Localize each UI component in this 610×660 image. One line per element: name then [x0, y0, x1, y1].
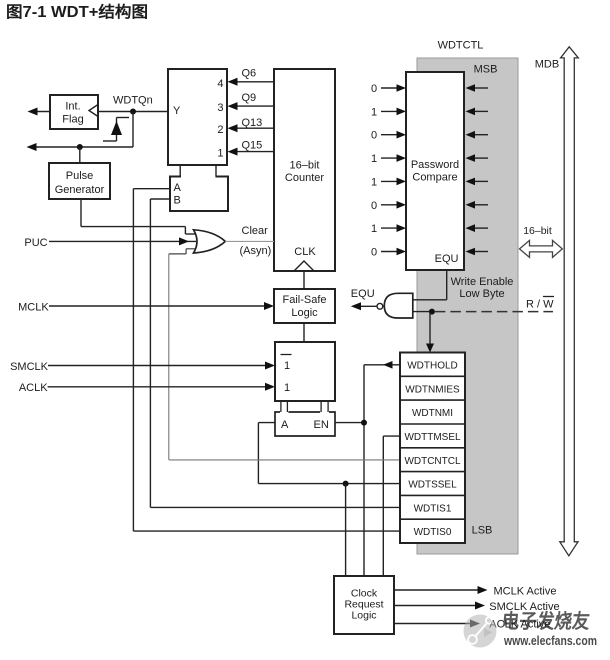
svg-text:0: 0: [371, 200, 377, 212]
wire junction to pulse generator: [79, 147, 81, 163]
register bit WDTNMIES: [400, 399, 465, 401]
svg-text:WDTCNTCL: WDTCNTCL: [404, 456, 461, 467]
svg-text:4: 4: [217, 78, 223, 90]
svg-text:WDTIS0: WDTIS0: [414, 527, 452, 538]
svg-text:Logic: Logic: [291, 307, 318, 319]
svg-text:www.elecfans.com: www.elecfans.com: [503, 634, 597, 648]
svg-text:B: B: [174, 195, 181, 207]
svg-text:0: 0: [371, 83, 377, 95]
data bus taps into password compare right side: [473, 87, 488, 89]
svg-text:MSB: MSB: [474, 64, 498, 76]
wire clear output to counter: [225, 240, 274, 242]
wire WDTSSEL to A input: [258, 422, 275, 424]
watermark logo circle: [464, 615, 497, 648]
svg-text:WDTNMIES: WDTNMIES: [405, 384, 460, 395]
svg-text:LSB: LSB: [472, 525, 493, 537]
wire lower feedback to left arrow: [32, 146, 133, 148]
bus MDB vertical double arrow: [560, 47, 579, 556]
svg-text:PUC: PUC: [24, 237, 47, 249]
wire counter CLK to fail-safe: [303, 271, 305, 289]
fail-safe logic box: [274, 289, 335, 323]
svg-text:Fail-Safe: Fail-Safe: [282, 294, 326, 306]
OR gate G1 clear: [194, 230, 226, 253]
svg-text:1: 1: [284, 382, 290, 394]
divider tap selector Y box: [168, 69, 227, 165]
wire write strobe into gate lower input: [413, 311, 432, 313]
svg-text:Flag: Flag: [62, 114, 83, 126]
gray byte region WDTCTL: [417, 58, 518, 554]
wire EN output of A-EN box: [335, 422, 364, 424]
svg-text:Q9: Q9: [242, 92, 257, 104]
svg-text:Low Byte: Low Byte: [459, 288, 504, 300]
svg-text:1: 1: [371, 223, 377, 235]
wire SMCLK to mux: [48, 365, 268, 367]
wire Q15 tap: [236, 151, 274, 153]
node WDTQn junction: [130, 109, 136, 115]
wire ACLK to mux: [48, 386, 268, 388]
svg-text:A: A: [281, 419, 289, 431]
counter clock wedge: [294, 261, 314, 271]
int-flag clock input wedge: [89, 105, 98, 117]
A-EN enable box: [275, 412, 335, 436]
16-bit counter box: [274, 69, 335, 271]
clock request logic box: [334, 576, 394, 634]
wire SMCLK Active output: [394, 605, 479, 607]
svg-text:EN: EN: [314, 419, 329, 431]
svg-text:WDTCTL: WDTCTL: [438, 40, 484, 52]
wire WDTCNTCL net: [169, 459, 400, 461]
svg-text:16–bit: 16–bit: [523, 225, 552, 237]
svg-text:2: 2: [217, 124, 223, 136]
svg-text:WDTNMI: WDTNMI: [412, 408, 453, 419]
clock source mux box: [275, 342, 335, 401]
wire EQU from password compare to gate: [446, 270, 448, 300]
svg-text:WDTQn: WDTQn: [113, 95, 153, 107]
pulse generator box: [49, 163, 110, 199]
svg-text:WDTTMSEL: WDTTMSEL: [404, 432, 461, 443]
svg-text:EQU: EQU: [435, 253, 459, 265]
wire WDTIS0 to A select: [133, 530, 400, 532]
wire MCLK to fail-safe: [49, 305, 267, 307]
svg-text:Compare: Compare: [412, 172, 457, 184]
svg-text:Write Enable: Write Enable: [451, 276, 514, 288]
wire pulse generator to OR gate top input: [80, 199, 82, 227]
svg-text:1: 1: [371, 176, 377, 188]
svg-text:WDTHOLD: WDTHOLD: [407, 361, 458, 372]
wire WDTIS1 to B select: [150, 506, 400, 508]
wire WDTQn net: [98, 111, 168, 113]
wire WDTQn vertical: [132, 112, 134, 148]
control register stack: [400, 353, 465, 544]
svg-text:EQU: EQU: [351, 288, 375, 300]
svg-text:Int.: Int.: [65, 101, 80, 113]
rising-edge trigger symbol: [103, 140, 117, 142]
svg-text:ACLK: ACLK: [19, 382, 48, 394]
wire Q9 tap: [236, 105, 274, 107]
node EN junction: [361, 420, 367, 426]
register bit WDTTMSEL: [400, 447, 465, 449]
wire fail-safe to clock mux: [303, 323, 305, 342]
node WDTSSEL junction: [343, 481, 349, 487]
svg-text:1: 1: [284, 360, 290, 372]
svg-text:R / W: R / W: [526, 299, 554, 311]
wire R/W dashed line: [435, 311, 553, 313]
register bit WDTSSEL: [400, 494, 465, 496]
svg-text:Q13: Q13: [242, 117, 263, 129]
svg-text:1: 1: [371, 153, 377, 165]
svg-text:Y: Y: [173, 105, 181, 117]
legs between mux and A-EN box: [280, 401, 282, 412]
wire ACLK Active output: [394, 623, 474, 625]
svg-text:CLK: CLK: [294, 246, 316, 258]
svg-text:3: 3: [217, 102, 223, 114]
wire WDTSSEL down to clock request logic: [345, 484, 347, 576]
svg-text:(Asyn): (Asyn): [240, 245, 272, 257]
legs between Y box and AB box: [179, 165, 181, 177]
wire int-flag output left arrow: [33, 111, 50, 113]
svg-text:1: 1: [371, 106, 377, 118]
svg-text:WDTIS1: WDTIS1: [414, 503, 452, 514]
node write strobe junction: [429, 309, 435, 315]
bus 16-bit double arrow: [520, 240, 563, 257]
svg-text:Counter: Counter: [285, 172, 324, 184]
svg-text:Pulse: Pulse: [66, 170, 94, 182]
wire WDTCNTCL to OR gate bottom input: [169, 253, 186, 255]
wire Q6 tap: [236, 81, 274, 83]
int-flag U1 box: [50, 95, 98, 129]
wire gate EQU output arrow: [356, 305, 377, 307]
register bit WDTNMI: [400, 423, 465, 425]
wire WDTTMSEL to clock request logic: [383, 435, 400, 437]
svg-text:16–bit: 16–bit: [290, 160, 320, 172]
svg-text:Q6: Q6: [242, 68, 257, 80]
svg-text:A: A: [174, 182, 182, 194]
svg-text:0: 0: [371, 130, 377, 142]
svg-text:图7-1 WDT+结构图: 图7-1 WDT+结构图: [6, 2, 148, 21]
svg-text:Generator: Generator: [55, 184, 105, 196]
register bit WDTCNTCL: [400, 471, 465, 473]
svg-text:Clear: Clear: [242, 225, 269, 237]
svg-text:1: 1: [217, 148, 223, 160]
svg-text:Q15: Q15: [242, 140, 263, 152]
node pulse-gen junction: [77, 144, 83, 150]
svg-text:0: 0: [371, 247, 377, 259]
svg-text:SMCLK: SMCLK: [10, 361, 49, 373]
svg-text:WDTSSEL: WDTSSEL: [408, 480, 457, 491]
svg-text:MCLK Active: MCLK Active: [494, 586, 557, 598]
svg-text:MDB: MDB: [535, 59, 559, 71]
wire PUC to OR gate: [49, 240, 196, 242]
svg-text:MCLK: MCLK: [18, 302, 49, 314]
password compare box: [406, 72, 464, 270]
wire Q13 tap: [236, 127, 274, 129]
wire write strobe down to WDTHOLD: [429, 312, 431, 347]
AB select box: [170, 177, 228, 212]
register bit WDTIS1: [400, 518, 465, 520]
svg-text:Password: Password: [411, 159, 459, 171]
write gate G2 nand facing left: [384, 293, 413, 318]
svg-text:电子发烧友: 电子发烧友: [500, 609, 591, 633]
wire WDTHOLD to EN: [364, 364, 400, 366]
register bit WDTHOLD: [400, 375, 465, 377]
wire MCLK Active output: [394, 589, 481, 591]
svg-text:Logic: Logic: [351, 610, 376, 622]
